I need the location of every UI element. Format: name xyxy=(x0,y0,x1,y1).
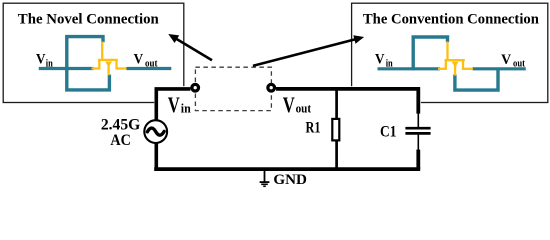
svg-text:in: in xyxy=(181,102,191,116)
svg-text:R1: R1 xyxy=(306,119,321,136)
arrow to novel box xyxy=(168,34,212,60)
transistor M1 (novel connection, yellow) xyxy=(92,42,127,76)
svg-text:GND: GND xyxy=(273,172,307,188)
node Vout label (convention box) xyxy=(501,52,525,69)
wire: novel box gate/bulk feedback loop (teal) xyxy=(67,37,110,90)
white mask under main circuit xyxy=(154,86,421,171)
wire: top-left from source to Vin terminal xyxy=(156,89,190,120)
node Vout terminal xyxy=(268,84,275,91)
label: 2.45G AC xyxy=(101,116,141,149)
svg-text:The Convention Connection: The Convention Connection xyxy=(363,11,540,27)
svg-text:V: V xyxy=(375,52,385,68)
svg-text:V: V xyxy=(134,52,144,68)
transistor M2 (convention connection, yellow) xyxy=(438,42,473,76)
svg-text:V: V xyxy=(501,52,511,68)
node Vout label (novel box) xyxy=(134,52,158,70)
svg-text:C1: C1 xyxy=(380,124,397,141)
wire: source bottom lead xyxy=(155,144,159,171)
arrow to convention box xyxy=(253,35,364,66)
svg-text:2.45G: 2.45G xyxy=(101,116,141,133)
wire: novel box input line (teal) xyxy=(39,67,94,70)
wire: convention box bulk-to-output loop (teal) xyxy=(455,69,498,90)
ground xyxy=(260,171,270,186)
AC source V1 2.45G xyxy=(144,120,167,143)
svg-text:out: out xyxy=(296,102,312,116)
wire: bottom return wire xyxy=(154,167,420,171)
capacitor C1 xyxy=(405,113,430,169)
node Vin terminal xyxy=(192,84,199,91)
wire: top-right from Vout terminal to C1 branch corner xyxy=(276,89,418,114)
dashed selection box around device-under-test xyxy=(195,67,271,110)
svg-text:V: V xyxy=(36,52,46,68)
node Vin label (novel box) xyxy=(36,52,53,70)
svg-text:AC: AC xyxy=(110,132,131,149)
svg-text:V: V xyxy=(283,92,295,117)
wire: convention box gate-to-input loop (teal) xyxy=(413,37,447,70)
node Vin label (main circuit) xyxy=(168,92,191,117)
wire: convention box input line (teal) xyxy=(378,67,441,70)
callout box: The Convention Connection xyxy=(352,3,548,102)
svg-text:The Novel Connection: The Novel Connection xyxy=(18,11,160,27)
resistor R1 xyxy=(332,119,339,140)
svg-text:V: V xyxy=(168,92,180,117)
wire: convention box output line (teal) xyxy=(473,67,526,70)
node Vout label (main circuit) xyxy=(283,92,312,117)
callout box: The Novel Connection xyxy=(3,3,184,102)
wire: R1 top lead xyxy=(335,87,338,120)
wire: R1 bottom lead xyxy=(335,140,338,169)
wire: novel box output line (teal) xyxy=(127,67,172,70)
node Vin label (convention box) xyxy=(375,52,393,70)
